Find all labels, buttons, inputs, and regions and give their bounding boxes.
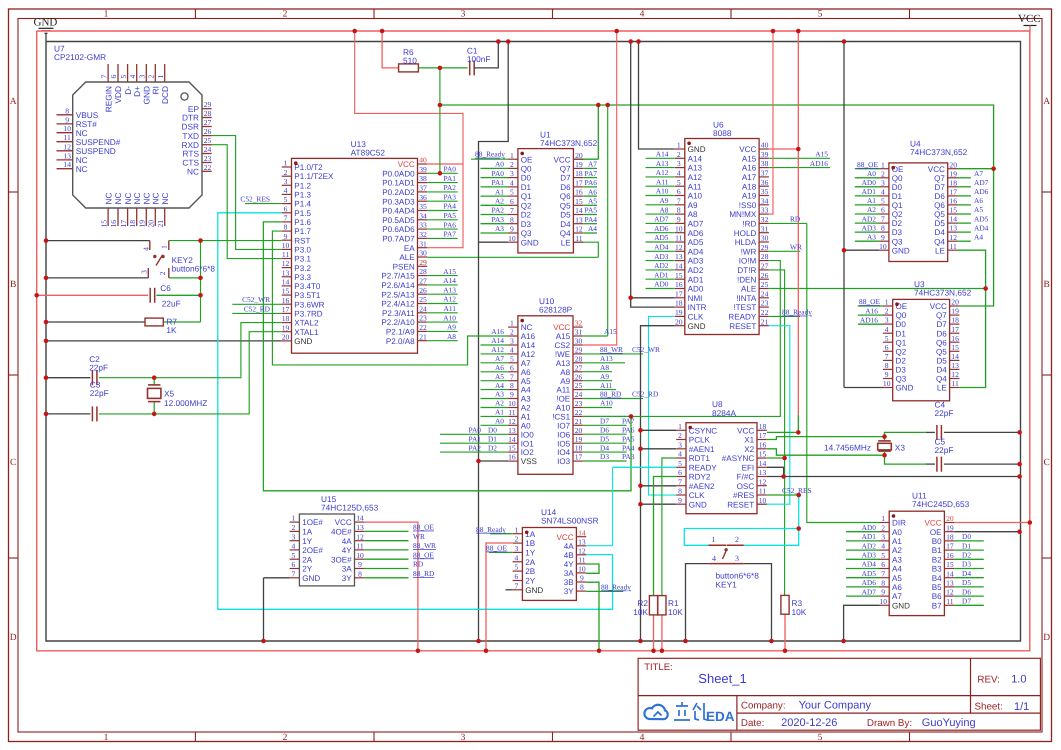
svg-text:P0.1AD1: P0.1AD1: [382, 179, 415, 188]
svg-text:4Y: 4Y: [564, 560, 575, 569]
svg-text:EA: EA: [404, 244, 415, 253]
svg-text:1: 1: [292, 514, 296, 523]
svg-text:Q2: Q2: [892, 210, 903, 219]
svg-text:A3: A3: [495, 224, 504, 233]
svg-text:3: 3: [510, 337, 514, 346]
svg-text:VCC: VCC: [739, 145, 756, 154]
svg-text:2: 2: [284, 168, 288, 177]
svg-text:2: 2: [515, 535, 519, 544]
svg-text:VCC: VCC: [557, 533, 574, 542]
svg-text:9: 9: [881, 588, 885, 597]
svg-text:2A: 2A: [525, 558, 536, 567]
svg-text:3OE#: 3OE#: [331, 555, 352, 564]
svg-text:5: 5: [119, 75, 128, 79]
svg-text:12: 12: [578, 546, 586, 555]
svg-text:12: 12: [508, 417, 516, 426]
svg-text:7: 7: [284, 214, 288, 223]
svg-text:4: 4: [515, 553, 519, 562]
svg-text:P3.4T0: P3.4T0: [294, 282, 321, 291]
svg-text:8: 8: [510, 381, 514, 390]
svg-text:24: 24: [204, 145, 212, 154]
svg-text:16: 16: [109, 220, 118, 228]
svg-text:CS2: CS2: [554, 341, 570, 350]
svg-text:22: 22: [761, 308, 769, 317]
svg-text:12: 12: [282, 259, 290, 268]
svg-text:6: 6: [292, 560, 296, 569]
svg-text:10: 10: [883, 379, 891, 388]
svg-text:17: 17: [946, 542, 954, 551]
svg-text:AD1: AD1: [862, 187, 877, 196]
svg-text:D5: D5: [935, 219, 946, 228]
svg-text:PA2: PA2: [444, 183, 457, 192]
svg-text:100nF: 100nF: [467, 54, 491, 64]
svg-text:88_OE: 88_OE: [413, 523, 434, 532]
svg-text:NC: NC: [521, 323, 533, 332]
svg-text:KEY1: KEY1: [716, 579, 738, 589]
svg-text:7: 7: [678, 477, 682, 486]
svg-text:4: 4: [885, 325, 889, 334]
svg-text:A9: A9: [447, 323, 456, 332]
svg-text:A15: A15: [742, 154, 757, 163]
svg-text:38: 38: [761, 159, 769, 168]
svg-text:9: 9: [65, 115, 69, 124]
svg-text:1: 1: [510, 151, 514, 160]
svg-text:!WE: !WE: [555, 350, 571, 359]
svg-text:12: 12: [946, 588, 954, 597]
svg-text:8: 8: [358, 569, 362, 578]
svg-text:AD2: AD2: [862, 214, 877, 223]
svg-text:22uF: 22uF: [162, 298, 181, 308]
svg-text:2B: 2B: [525, 567, 535, 576]
svg-text:A15: A15: [443, 267, 456, 276]
svg-text:GuoYuying: GuoYuying: [922, 717, 976, 729]
svg-text:A9: A9: [600, 372, 609, 381]
svg-text:REV:: REV:: [977, 674, 1000, 685]
svg-text:Q3: Q3: [892, 237, 903, 246]
svg-text:D5: D5: [600, 434, 609, 443]
svg-text:Q0: Q0: [521, 165, 532, 174]
svg-text:7: 7: [885, 352, 889, 361]
svg-text:A0: A0: [495, 417, 504, 426]
svg-text:8: 8: [885, 361, 889, 370]
svg-text:D3: D3: [892, 228, 903, 237]
svg-text:Q6: Q6: [934, 201, 945, 210]
svg-text:Q1: Q1: [892, 201, 903, 210]
svg-text:4: 4: [678, 450, 682, 459]
svg-text:A15: A15: [604, 327, 617, 336]
svg-text:A1: A1: [495, 187, 504, 196]
svg-text:A5: A5: [588, 197, 597, 206]
svg-text:PA3: PA3: [622, 452, 635, 461]
svg-text:10: 10: [879, 597, 887, 606]
svg-text:RD: RD: [790, 215, 801, 224]
svg-text:NC: NC: [103, 193, 113, 205]
svg-text:2: 2: [881, 169, 885, 178]
svg-text:B1: B1: [932, 546, 942, 555]
svg-text:74HC373N,652: 74HC373N,652: [914, 288, 972, 298]
svg-text:16: 16: [951, 334, 959, 343]
svg-text:11: 11: [356, 542, 364, 551]
svg-text:18: 18: [946, 533, 954, 542]
svg-text:AD16: AD16: [810, 159, 828, 168]
svg-text:2Y: 2Y: [525, 577, 536, 586]
svg-text:18: 18: [759, 422, 767, 431]
svg-text:A11: A11: [656, 177, 669, 186]
svg-text:GND: GND: [302, 574, 320, 583]
svg-text:15: 15: [949, 206, 957, 215]
svg-text:A13: A13: [656, 159, 669, 168]
svg-text:510: 510: [403, 56, 417, 66]
svg-text:26: 26: [419, 286, 427, 295]
svg-text:P2.5/A13: P2.5/A13: [381, 290, 415, 299]
svg-text:28: 28: [761, 252, 769, 261]
svg-text:13: 13: [675, 252, 683, 261]
svg-text:9: 9: [510, 225, 514, 234]
svg-text:10: 10: [356, 551, 364, 560]
svg-text:13: 13: [578, 537, 586, 546]
svg-text:14: 14: [759, 459, 767, 468]
svg-text:PA0: PA0: [444, 165, 457, 174]
svg-text:F/#C: F/#C: [737, 473, 755, 482]
svg-text:1.0: 1.0: [1011, 673, 1026, 685]
svg-text:OE: OE: [521, 155, 533, 164]
svg-text:D+: D+: [132, 86, 142, 97]
svg-text:2: 2: [885, 307, 889, 316]
svg-text:4Y: 4Y: [342, 546, 353, 555]
svg-text:A2: A2: [495, 197, 504, 206]
svg-text:D0: D0: [488, 426, 497, 435]
svg-text:A15: A15: [815, 150, 828, 159]
svg-text:B7: B7: [932, 601, 942, 610]
svg-text:37: 37: [761, 169, 769, 178]
svg-text:88_Ready: 88_Ready: [601, 582, 631, 591]
svg-text:22pF: 22pF: [89, 363, 108, 373]
svg-text:17: 17: [951, 325, 959, 334]
svg-text:19: 19: [282, 323, 290, 332]
svg-text:18: 18: [575, 169, 583, 178]
svg-text:1: 1: [510, 319, 514, 328]
svg-text:6: 6: [881, 206, 885, 215]
svg-text:A13: A13: [443, 285, 456, 294]
svg-text:NC: NC: [76, 164, 88, 174]
svg-text:3: 3: [678, 440, 682, 449]
svg-text:14: 14: [508, 435, 516, 444]
svg-text:LE: LE: [561, 238, 572, 247]
svg-text:AD5: AD5: [654, 233, 669, 242]
svg-text:2A: 2A: [302, 555, 313, 564]
svg-text:22: 22: [575, 408, 583, 417]
svg-text:14: 14: [578, 528, 586, 537]
svg-text:8: 8: [881, 579, 885, 588]
svg-text:4: 4: [677, 169, 681, 178]
svg-text:#AEN2: #AEN2: [689, 482, 715, 491]
svg-text:7: 7: [99, 75, 108, 79]
svg-text:20: 20: [675, 317, 683, 326]
svg-text:NC: NC: [160, 193, 170, 205]
svg-text:7: 7: [881, 569, 885, 578]
svg-text:P2.1/A9: P2.1/A9: [386, 328, 415, 337]
svg-text:AD2: AD2: [654, 261, 669, 270]
svg-text:16: 16: [675, 280, 683, 289]
svg-text:PA1: PA1: [492, 178, 505, 187]
svg-text:MN!MX: MN!MX: [729, 210, 757, 219]
svg-text:D1: D1: [962, 541, 971, 550]
svg-text:39: 39: [761, 150, 769, 159]
svg-text:AD3: AD3: [688, 257, 704, 266]
svg-text:P1.0/T2: P1.0/T2: [294, 163, 323, 172]
svg-text:17: 17: [575, 179, 583, 188]
svg-text:8: 8: [677, 206, 681, 215]
svg-text:D0: D0: [896, 320, 907, 329]
svg-text:6: 6: [510, 197, 514, 206]
svg-text:SN74LS00NSR: SN74LS00NSR: [541, 516, 599, 526]
svg-text:2: 2: [881, 523, 885, 532]
svg-text:D1: D1: [892, 192, 903, 201]
svg-text:B4: B4: [932, 574, 942, 583]
svg-text:5: 5: [881, 551, 885, 560]
svg-text:RDY2: RDY2: [689, 473, 711, 482]
svg-text:3: 3: [881, 533, 885, 542]
svg-text:11: 11: [64, 133, 72, 142]
svg-text:VCC: VCC: [554, 155, 571, 164]
svg-text:14: 14: [951, 352, 959, 361]
svg-text:29: 29: [419, 258, 427, 267]
svg-text:CLK: CLK: [689, 491, 705, 500]
svg-text:D5: D5: [936, 357, 947, 366]
svg-text:D3: D3: [600, 452, 609, 461]
svg-text:88_OE: 88_OE: [859, 297, 880, 306]
svg-text:32: 32: [575, 319, 583, 328]
svg-text:GND: GND: [896, 384, 914, 393]
svg-text:27: 27: [575, 363, 583, 372]
svg-text:14: 14: [282, 278, 290, 287]
svg-text:5: 5: [885, 334, 889, 343]
svg-text:AD7: AD7: [688, 220, 704, 229]
svg-text:9: 9: [881, 233, 885, 242]
svg-text:5: 5: [284, 195, 288, 204]
svg-text:74HC373N,652: 74HC373N,652: [910, 147, 968, 157]
svg-text:12: 12: [759, 477, 767, 486]
svg-text:D3: D3: [962, 560, 971, 569]
svg-text:A6: A6: [974, 196, 983, 205]
svg-text:A13: A13: [556, 359, 571, 368]
svg-text:23: 23: [204, 154, 212, 163]
svg-text:AD4: AD4: [654, 243, 669, 252]
svg-text:AD4: AD4: [862, 560, 877, 569]
svg-text:8284A: 8284A: [712, 408, 736, 418]
svg-text:VCC: VCC: [930, 302, 947, 311]
svg-text:Q5: Q5: [560, 201, 571, 210]
svg-text:74HC245D,653: 74HC245D,653: [912, 499, 970, 509]
svg-text:P2.6/A14: P2.6/A14: [381, 281, 415, 290]
svg-text:GND: GND: [689, 500, 707, 509]
svg-text:4: 4: [881, 188, 885, 197]
svg-text:P2.0/A8: P2.0/A8: [386, 337, 415, 346]
svg-text:A3: A3: [867, 232, 876, 241]
svg-text:HLDA: HLDA: [735, 238, 757, 247]
svg-text:REGIN: REGIN: [103, 86, 113, 112]
svg-text:D4: D4: [560, 220, 571, 229]
svg-text:15: 15: [575, 197, 583, 206]
svg-text:7: 7: [510, 206, 514, 215]
svg-text:18: 18: [951, 316, 959, 325]
svg-text:11: 11: [675, 234, 683, 243]
svg-text:GND: GND: [892, 601, 910, 610]
svg-text:P2.7/A15: P2.7/A15: [381, 272, 415, 281]
svg-text:8: 8: [510, 215, 514, 224]
svg-text:13: 13: [759, 468, 767, 477]
svg-text:4: 4: [881, 542, 885, 551]
svg-text:GND: GND: [688, 145, 706, 154]
svg-text:D1: D1: [521, 183, 532, 192]
svg-text:!OE: !OE: [556, 395, 571, 404]
svg-text:2OE#: 2OE#: [302, 546, 323, 555]
svg-text:P1.3: P1.3: [294, 191, 311, 200]
svg-text:P0.7AD7: P0.7AD7: [382, 235, 415, 244]
svg-text:D0: D0: [521, 174, 532, 183]
svg-text:IO1: IO1: [521, 439, 535, 448]
svg-text:P0.6AD6: P0.6AD6: [382, 225, 415, 234]
svg-text:D4: D4: [962, 569, 971, 578]
svg-text:AD1: AD1: [654, 270, 669, 279]
svg-text:5: 5: [515, 563, 519, 572]
svg-text:D7: D7: [560, 174, 571, 183]
svg-text:15: 15: [282, 287, 290, 296]
svg-text:15: 15: [508, 444, 516, 453]
svg-text:2: 2: [510, 160, 514, 169]
svg-text:A10: A10: [656, 187, 669, 196]
svg-text:P1.4: P1.4: [294, 200, 311, 209]
svg-text:1: 1: [885, 298, 889, 307]
svg-text:A0: A0: [867, 169, 876, 178]
svg-text:18: 18: [949, 178, 957, 187]
svg-text:1: 1: [104, 10, 109, 20]
svg-text:10K: 10K: [668, 607, 683, 617]
svg-text:23: 23: [419, 314, 427, 323]
svg-text:AD3: AD3: [862, 551, 877, 560]
svg-text:3A: 3A: [342, 565, 353, 574]
svg-text:AD0: AD0: [862, 523, 877, 532]
svg-text:22pF: 22pF: [935, 445, 954, 455]
svg-text:DIR: DIR: [892, 519, 906, 528]
svg-text:P0.2AD2: P0.2AD2: [382, 188, 415, 197]
svg-text:39: 39: [419, 165, 427, 174]
svg-text:5: 5: [818, 10, 823, 20]
svg-text:P1.1/T2EX: P1.1/T2EX: [294, 172, 334, 181]
svg-text:AD6: AD6: [688, 229, 704, 238]
svg-text:A: A: [10, 97, 17, 107]
svg-text:1: 1: [515, 525, 519, 534]
svg-text:12: 12: [951, 370, 959, 379]
svg-text:Q2: Q2: [521, 201, 532, 210]
svg-text:2: 2: [292, 523, 296, 532]
svg-text:A16: A16: [491, 327, 504, 336]
svg-text:14: 14: [675, 262, 683, 271]
svg-text:IO6: IO6: [557, 430, 571, 439]
svg-text:VCC: VCC: [925, 519, 942, 528]
svg-text:3: 3: [138, 75, 147, 79]
svg-text:READY: READY: [728, 313, 756, 322]
svg-text:3: 3: [515, 544, 519, 553]
svg-text:22: 22: [419, 323, 427, 332]
svg-text:CLK: CLK: [688, 313, 704, 322]
svg-text:IO3: IO3: [557, 457, 571, 466]
svg-text:11: 11: [508, 408, 516, 417]
svg-text:D6: D6: [600, 425, 609, 434]
svg-text:P3.7RD: P3.7RD: [294, 310, 322, 319]
svg-text:32: 32: [761, 215, 769, 224]
svg-text:A5: A5: [495, 372, 504, 381]
svg-text:D2: D2: [488, 443, 497, 452]
svg-text:33: 33: [761, 206, 769, 215]
svg-text:RD: RD: [413, 560, 424, 569]
svg-text:A2: A2: [521, 404, 531, 413]
svg-text:A7: A7: [495, 354, 504, 363]
svg-text:21: 21: [156, 220, 165, 228]
svg-text:A6: A6: [892, 583, 902, 592]
svg-text:2: 2: [678, 431, 682, 440]
svg-text:34: 34: [419, 211, 427, 220]
svg-text:3: 3: [510, 169, 514, 178]
svg-text:A4: A4: [588, 224, 597, 233]
svg-text:A10: A10: [556, 404, 571, 413]
svg-text:13: 13: [946, 579, 954, 588]
svg-text:A16: A16: [521, 332, 536, 341]
svg-text:4OE#: 4OE#: [331, 528, 352, 537]
svg-text:29: 29: [575, 346, 583, 355]
svg-text:!CS1: !CS1: [552, 413, 570, 422]
svg-text:C52_RD: C52_RD: [244, 304, 271, 313]
svg-text:13: 13: [282, 268, 290, 277]
svg-text:PA1: PA1: [444, 174, 457, 183]
svg-text:20: 20: [575, 426, 583, 435]
svg-text:19: 19: [946, 523, 954, 532]
svg-text:A19: A19: [742, 192, 757, 201]
svg-text:16: 16: [949, 197, 957, 206]
svg-text:32: 32: [419, 230, 427, 239]
svg-text:1OE#: 1OE#: [302, 518, 323, 527]
svg-text:AD0: AD0: [688, 285, 704, 294]
svg-text:NC: NC: [132, 193, 142, 205]
svg-text:29: 29: [204, 100, 212, 109]
svg-text:AD7: AD7: [974, 178, 989, 187]
svg-text:EDA: EDA: [706, 709, 735, 724]
svg-text:GND: GND: [521, 238, 539, 247]
svg-text:B: B: [1044, 280, 1050, 290]
svg-text:10K: 10K: [792, 607, 807, 617]
svg-text:6: 6: [678, 468, 682, 477]
svg-text:D2: D2: [521, 211, 532, 220]
svg-text:LE: LE: [935, 246, 946, 255]
svg-text:10: 10: [508, 234, 516, 243]
svg-text:VCC: VCC: [553, 323, 570, 332]
svg-text:A9: A9: [560, 377, 570, 386]
svg-text:PA1: PA1: [469, 434, 482, 443]
svg-text:7: 7: [881, 215, 885, 224]
svg-text:4B: 4B: [564, 551, 574, 560]
svg-text:36: 36: [761, 178, 769, 187]
svg-text:A11: A11: [688, 182, 702, 191]
svg-text:Q7: Q7: [560, 165, 571, 174]
svg-text:P1.5: P1.5: [294, 209, 311, 218]
svg-text:Q1: Q1: [896, 338, 907, 347]
svg-text:P1.2: P1.2: [294, 181, 311, 190]
svg-text:D2: D2: [892, 219, 903, 228]
svg-text:VDD: VDD: [113, 86, 123, 104]
svg-text:21: 21: [575, 417, 583, 426]
svg-text:3: 3: [292, 532, 296, 541]
svg-text:EFI: EFI: [742, 463, 755, 472]
